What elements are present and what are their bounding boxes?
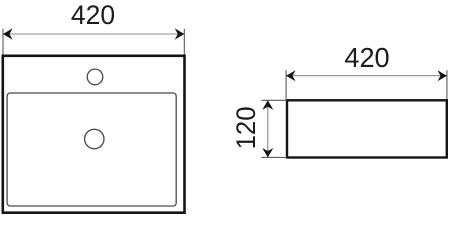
svg-text:120: 120 — [231, 106, 261, 149]
svg-text:420: 420 — [344, 42, 389, 73]
svg-text:420: 420 — [71, 0, 115, 30]
